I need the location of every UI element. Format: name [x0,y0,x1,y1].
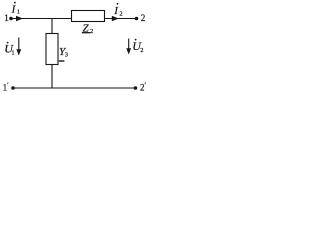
svg-text:1: 1 [4,13,9,23]
label U1 (phasor dot) [4,42,14,57]
node 1 (terminal dot) [9,17,13,21]
label U2 (phasor dot) [132,39,143,55]
voltage arrow U1 (downward) [16,38,21,56]
node 2' (terminal dot) [134,86,138,90]
svg-text:I: I [113,5,119,17]
voltage arrow U2 (downward) [126,39,131,55]
svg-text:2: 2 [141,13,146,23]
label I1 (phasor dot) [11,2,20,16]
node 2 (terminal dot) [135,17,139,21]
impedance Z2 box [72,11,105,22]
svg-text:2′: 2′ [140,81,147,92]
label Z2 (underlined) [82,22,93,35]
svg-text:1: 1 [11,49,14,56]
svg-text:2: 2 [119,11,122,18]
svg-text:1: 1 [17,9,20,16]
wire vertical stub top (top wire to Y3 box) [51,19,53,34]
node 1' (terminal dot) [11,86,15,90]
svg-text:1′: 1′ [3,81,10,92]
svg-text:I: I [11,3,17,15]
svg-text:2: 2 [90,28,93,35]
admittance Y3 box [46,34,58,65]
wire top-left (node 1 to Z2 box) [11,18,72,20]
wire vertical stub bottom (Y3 box to bottom wire) [51,65,53,89]
current arrow I2 [112,16,119,21]
svg-text:2: 2 [140,47,143,54]
wire top-right (Z2 box to node 2) [105,18,137,20]
current arrow I1 [16,16,23,21]
wire bottom (node 1' to node 2') [13,87,136,89]
label Y3 (underlined) [59,46,68,61]
svg-text:3: 3 [65,52,68,59]
label I2 (phasor dot) [113,3,122,18]
